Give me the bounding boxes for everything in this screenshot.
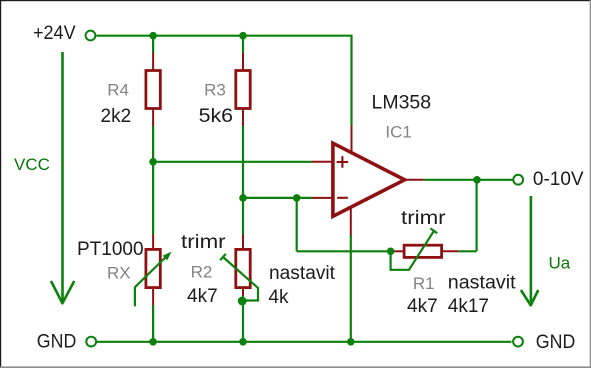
svg-text:R1: R1 <box>413 274 435 293</box>
svg-text:GND: GND <box>536 332 576 353</box>
svg-text:nastavit: nastavit <box>269 263 336 284</box>
svg-text:2k2: 2k2 <box>101 106 132 127</box>
svg-text:4k: 4k <box>268 287 289 308</box>
svg-text:GND: GND <box>37 332 77 353</box>
svg-text:trimr: trimr <box>401 208 446 229</box>
svg-text:0-10V: 0-10V <box>533 169 584 190</box>
svg-text:trimr: trimr <box>181 232 226 253</box>
svg-text:nastavit: nastavit <box>448 272 517 293</box>
svg-text:+24V: +24V <box>33 23 76 44</box>
svg-text:R2: R2 <box>191 263 213 282</box>
svg-text:4k7: 4k7 <box>407 296 438 317</box>
svg-text:RX: RX <box>107 264 131 283</box>
svg-text:VCC: VCC <box>14 155 50 174</box>
svg-text:Ua: Ua <box>549 254 571 273</box>
svg-text:IC1: IC1 <box>385 123 411 142</box>
svg-text:R4: R4 <box>107 80 129 99</box>
svg-text:PT1000: PT1000 <box>77 239 144 260</box>
svg-text:R3: R3 <box>204 80 226 99</box>
svg-text:4k7: 4k7 <box>187 286 218 307</box>
svg-text:LM358: LM358 <box>372 92 432 113</box>
svg-text:5k6: 5k6 <box>199 106 234 127</box>
svg-text:4k17: 4k17 <box>448 296 489 317</box>
